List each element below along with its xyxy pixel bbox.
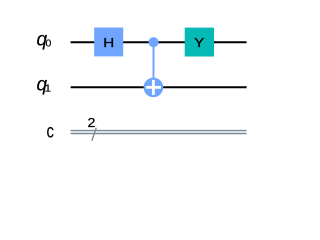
gate Y on q0 [185, 28, 214, 57]
classical double wire c [71, 131, 247, 134]
gate H on q0 [94, 28, 123, 57]
qubit label q0 [37, 30, 52, 51]
svg-text:1: 1 [45, 83, 52, 94]
svg-text:H: H [103, 36, 114, 51]
CX control dot on q0 [148, 37, 158, 47]
CX target on q1 [144, 78, 164, 98]
svg-text:c: c [47, 121, 55, 142]
CX vertical control wire [153, 42, 155, 87]
wire q0 [71, 41, 247, 43]
classical bundle slash [92, 128, 97, 141]
wire q1 [71, 86, 247, 88]
qubit label q1 [37, 75, 52, 96]
svg-text:0: 0 [46, 39, 52, 50]
svg-text:2: 2 [88, 116, 96, 130]
svg-text:Y: Y [194, 36, 205, 51]
